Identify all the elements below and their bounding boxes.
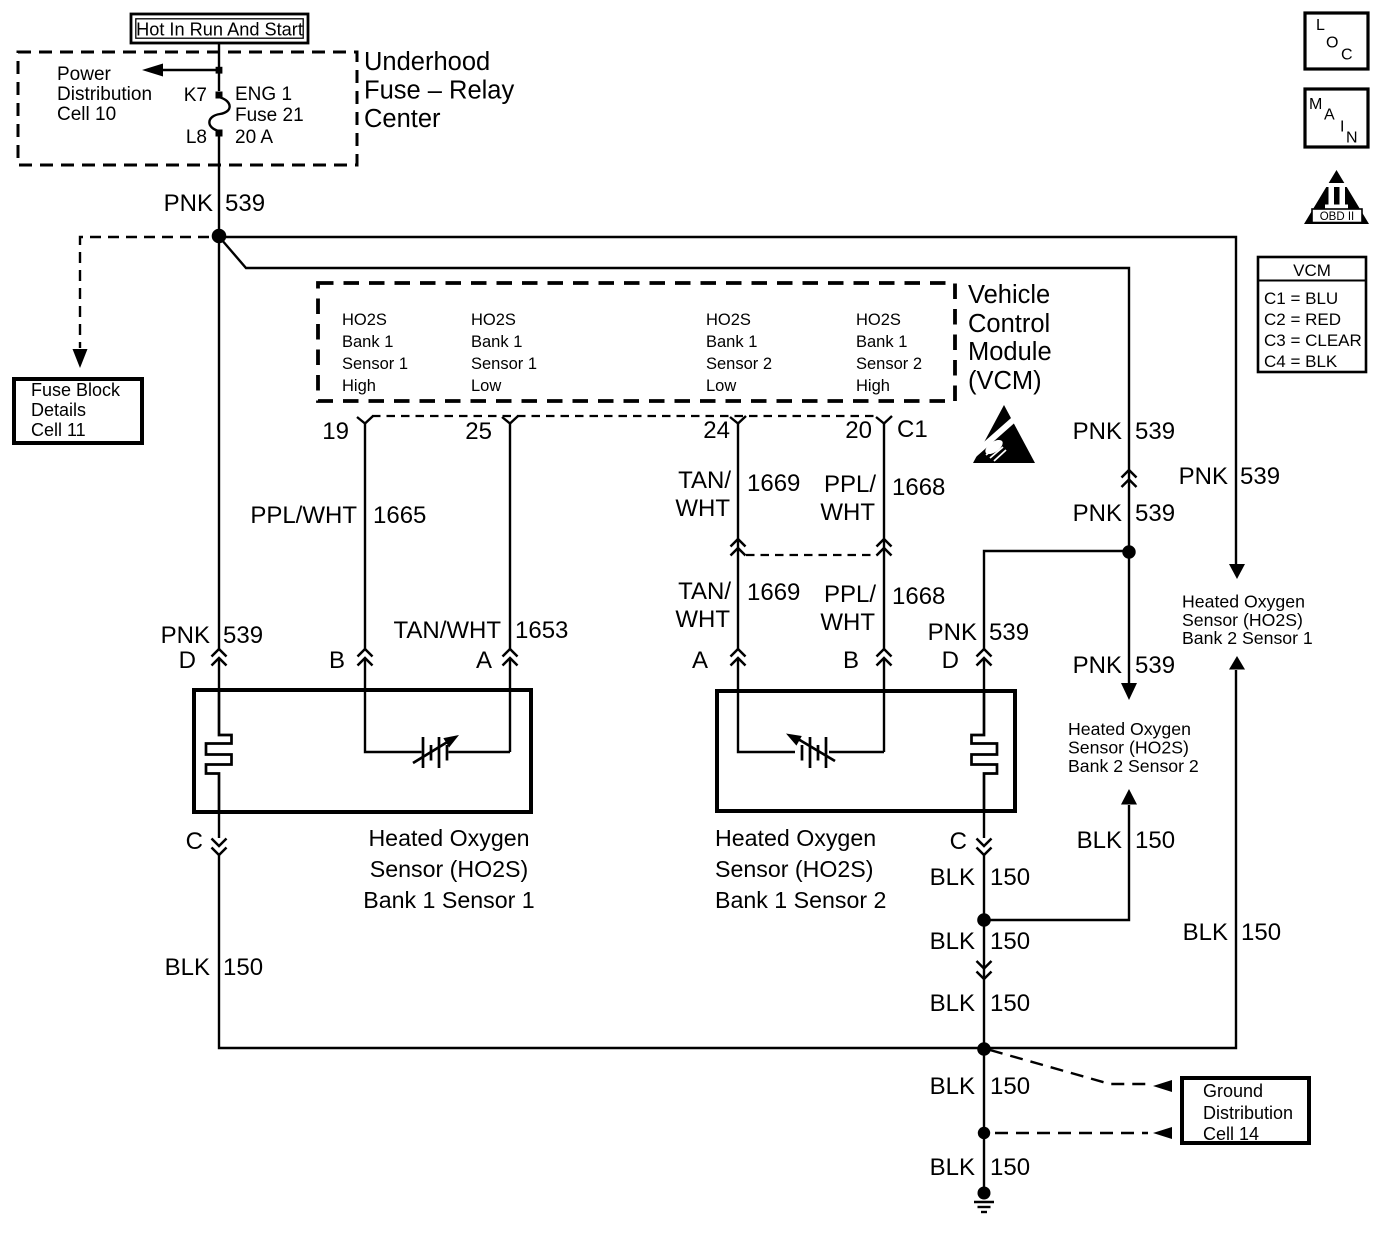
svg-text:Heated Oxygen: Heated Oxygen <box>1068 719 1191 739</box>
svg-text:Bank 1 Sensor 2: Bank 1 Sensor 2 <box>715 887 886 913</box>
svg-text:Sensor (HO2S): Sensor (HO2S) <box>1068 738 1189 758</box>
svg-text:I: I <box>1340 119 1344 136</box>
svg-text:PNK: PNK <box>164 190 213 217</box>
svg-text:HO2S: HO2S <box>856 311 901 329</box>
svg-text:539: 539 <box>1135 500 1175 527</box>
svg-text:150: 150 <box>990 1073 1030 1100</box>
svg-text:Details: Details <box>31 400 86 420</box>
svg-text:539: 539 <box>223 622 263 649</box>
svg-text:BLK: BLK <box>1183 919 1228 946</box>
svg-text:C2 = RED: C2 = RED <box>1264 310 1341 329</box>
svg-text:WHT: WHT <box>675 495 730 522</box>
svg-text:150: 150 <box>990 1154 1030 1181</box>
svg-text:WHT: WHT <box>820 609 875 636</box>
svg-text:Bank 1: Bank 1 <box>856 333 907 351</box>
svg-text:HO2S: HO2S <box>706 311 751 329</box>
svg-text:Cell 14: Cell 14 <box>1203 1124 1259 1144</box>
svg-text:C4 = BLK: C4 = BLK <box>1264 352 1338 371</box>
svg-text:C: C <box>950 828 967 855</box>
svg-text:1665: 1665 <box>373 502 426 529</box>
svg-text:Sensor 1: Sensor 1 <box>471 355 537 373</box>
svg-text:TAN/: TAN/ <box>678 578 731 605</box>
svg-text:PNK: PNK <box>1179 463 1228 490</box>
svg-text:150: 150 <box>990 928 1030 955</box>
svg-text:Fuse Block: Fuse Block <box>31 380 121 400</box>
svg-text:C1 = BLU: C1 = BLU <box>1264 289 1338 308</box>
svg-text:Sensor (HO2S): Sensor (HO2S) <box>370 856 529 882</box>
svg-text:Bank 1: Bank 1 <box>342 333 393 351</box>
svg-text:Underhood: Underhood <box>364 48 490 76</box>
svg-text:WHT: WHT <box>675 606 730 633</box>
svg-text:Sensor 1: Sensor 1 <box>342 355 408 373</box>
svg-text:PPL/: PPL/ <box>824 471 876 498</box>
svg-text:M: M <box>1309 96 1322 113</box>
svg-text:25: 25 <box>465 418 492 445</box>
svg-text:Heated Oxygen: Heated Oxygen <box>1182 592 1305 612</box>
svg-text:Hot In Run And Start: Hot In Run And Start <box>136 20 303 40</box>
svg-text:Vehicle: Vehicle <box>968 281 1050 309</box>
svg-text:(VCM): (VCM) <box>968 367 1042 395</box>
svg-text:Heated Oxygen: Heated Oxygen <box>368 825 529 851</box>
svg-text:High: High <box>342 377 376 395</box>
svg-text:Low: Low <box>471 377 501 395</box>
svg-text:OBD II: OBD II <box>1320 211 1355 223</box>
svg-text:B: B <box>843 647 859 674</box>
svg-text:Distribution: Distribution <box>1203 1103 1293 1123</box>
svg-text:150: 150 <box>223 954 263 981</box>
svg-text:1668: 1668 <box>892 583 945 610</box>
svg-text:150: 150 <box>1135 827 1175 854</box>
svg-text:Center: Center <box>364 105 441 133</box>
svg-text:BLK: BLK <box>930 1073 975 1100</box>
svg-text:L8: L8 <box>186 127 207 148</box>
svg-text:539: 539 <box>225 190 265 217</box>
svg-text:539: 539 <box>989 619 1029 646</box>
svg-text:C: C <box>186 828 203 855</box>
svg-text:WHT: WHT <box>820 499 875 526</box>
svg-text:A: A <box>692 647 708 674</box>
svg-text:Power: Power <box>57 64 112 85</box>
svg-text:A: A <box>476 647 492 674</box>
svg-text:24: 24 <box>703 417 730 444</box>
svg-text:Distribution: Distribution <box>57 84 152 105</box>
svg-text:20: 20 <box>845 417 872 444</box>
svg-text:1668: 1668 <box>892 474 945 501</box>
svg-text:PNK: PNK <box>161 622 210 649</box>
svg-text:539: 539 <box>1135 652 1175 679</box>
svg-text:Sensor 2: Sensor 2 <box>856 355 922 373</box>
svg-text:Bank 1: Bank 1 <box>706 333 757 351</box>
svg-text:PNK: PNK <box>1073 652 1122 679</box>
svg-text:PNK: PNK <box>1073 500 1122 527</box>
svg-text:Module: Module <box>968 338 1052 366</box>
svg-text:19: 19 <box>322 418 349 445</box>
svg-text:1669: 1669 <box>747 470 800 497</box>
svg-text:BLK: BLK <box>1077 827 1122 854</box>
svg-text:PNK: PNK <box>1073 418 1122 445</box>
svg-text:BLK: BLK <box>930 928 975 955</box>
svg-text:B: B <box>329 647 345 674</box>
svg-text:TAN/: TAN/ <box>678 467 731 494</box>
svg-text:Ground: Ground <box>1203 1081 1263 1101</box>
svg-text:Heated Oxygen: Heated Oxygen <box>715 825 876 851</box>
svg-text:Bank 1 Sensor 1: Bank 1 Sensor 1 <box>363 887 534 913</box>
svg-text:N: N <box>1346 130 1358 147</box>
svg-text:Sensor 2: Sensor 2 <box>706 355 772 373</box>
svg-text:L: L <box>1316 17 1325 34</box>
svg-text:Fuse – Relay: Fuse – Relay <box>364 77 514 105</box>
svg-text:20 A: 20 A <box>235 127 273 148</box>
svg-text:C3 = CLEAR: C3 = CLEAR <box>1264 331 1362 350</box>
svg-text:ENG 1: ENG 1 <box>235 84 292 105</box>
svg-text:BLK: BLK <box>930 864 975 891</box>
svg-text:PPL/WHT: PPL/WHT <box>250 502 357 529</box>
svg-text:High: High <box>856 377 890 395</box>
svg-text:TAN/WHT: TAN/WHT <box>393 617 501 644</box>
svg-text:K7: K7 <box>184 85 207 106</box>
svg-text:C: C <box>1341 47 1353 64</box>
svg-text:Control: Control <box>968 310 1050 338</box>
svg-text:Bank 2 Sensor 2: Bank 2 Sensor 2 <box>1068 756 1199 776</box>
svg-text:Cell 11: Cell 11 <box>31 420 86 440</box>
svg-text:HO2S: HO2S <box>342 311 387 329</box>
svg-text:PPL/: PPL/ <box>824 581 876 608</box>
svg-text:BLK: BLK <box>165 954 210 981</box>
svg-text:D: D <box>179 647 196 674</box>
svg-text:BLK: BLK <box>930 1154 975 1181</box>
svg-text:539: 539 <box>1240 463 1280 490</box>
svg-text:150: 150 <box>990 990 1030 1017</box>
svg-text:HO2S: HO2S <box>471 311 516 329</box>
svg-text:Sensor (HO2S): Sensor (HO2S) <box>1182 610 1303 630</box>
svg-text:O: O <box>1326 35 1338 52</box>
svg-text:C1: C1 <box>897 416 928 443</box>
svg-text:1669: 1669 <box>747 579 800 606</box>
svg-text:539: 539 <box>1135 418 1175 445</box>
svg-text:Sensor (HO2S): Sensor (HO2S) <box>715 856 874 882</box>
svg-text:Cell 10: Cell 10 <box>57 104 116 125</box>
svg-text:Bank 2 Sensor 1: Bank 2 Sensor 1 <box>1182 628 1313 648</box>
svg-text:BLK: BLK <box>930 990 975 1017</box>
svg-text:A: A <box>1324 107 1335 124</box>
svg-text:1653: 1653 <box>515 617 568 644</box>
svg-text:Low: Low <box>706 377 736 395</box>
svg-text:VCM: VCM <box>1293 261 1331 280</box>
svg-text:Bank 1: Bank 1 <box>471 333 522 351</box>
svg-text:D: D <box>942 647 959 674</box>
svg-text:150: 150 <box>990 864 1030 891</box>
svg-text:150: 150 <box>1241 919 1281 946</box>
svg-text:PNK: PNK <box>928 619 977 646</box>
svg-text:Fuse 21: Fuse 21 <box>235 105 304 126</box>
